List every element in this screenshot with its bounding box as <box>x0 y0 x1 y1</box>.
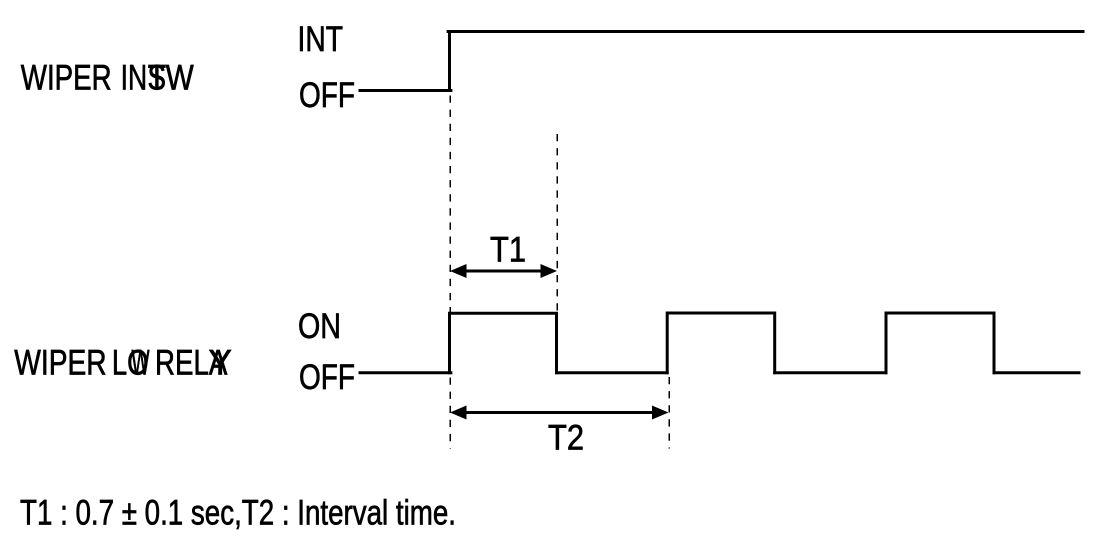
signal name label WIPER LO RELAY <box>14 343 232 382</box>
wire INT SW OFF level segment <box>360 89 451 92</box>
wire LO relay OFF segment between pulse 1 and 2 <box>557 371 668 374</box>
svg-text:IN: IN <box>121 58 148 97</box>
dimension arrow T2 <box>450 406 669 420</box>
svg-text:Y: Y <box>209 343 232 382</box>
wire LO relay pulse 1 <box>450 313 557 372</box>
svg-text:WIPER: WIPER <box>21 58 112 97</box>
guide dashed line at end of T2 <box>668 377 670 449</box>
svg-text:T2: T2 <box>548 419 584 458</box>
dimension arrow T1 <box>450 264 557 278</box>
wire LO relay pulse 3 <box>886 313 994 373</box>
svg-text:OFF: OFF <box>299 358 355 397</box>
svg-text:INT: INT <box>298 20 344 59</box>
guide dashed line at end of T1 <box>556 134 558 313</box>
svg-text:T1: T1 <box>490 231 526 270</box>
wire LO relay OFF lead segment <box>360 371 451 374</box>
svg-text:T1 : 0.7 ± 0.1 sec,T2 : Interv: T1 : 0.7 ± 0.1 sec,T2 : Interval time. <box>20 494 456 533</box>
wire LO relay OFF segment between pulse 2 and 3 <box>775 371 886 374</box>
svg-text:W: W <box>132 343 150 382</box>
svg-text:WIPER: WIPER <box>14 343 106 382</box>
wire INT SW INT level segment <box>448 30 1083 33</box>
svg-text:W: W <box>166 58 194 97</box>
svg-text:ON: ON <box>298 307 341 346</box>
svg-text:OFF: OFF <box>299 76 355 115</box>
wire INT SW rising edge <box>448 32 451 91</box>
wire LO relay OFF tail segment <box>994 371 1079 374</box>
wire LO relay pulse 2 <box>667 313 775 373</box>
svg-text:S: S <box>148 58 167 97</box>
signal name label WIPER INT SW <box>21 58 194 97</box>
guide dashed line at INT ON trigger <box>449 96 451 449</box>
